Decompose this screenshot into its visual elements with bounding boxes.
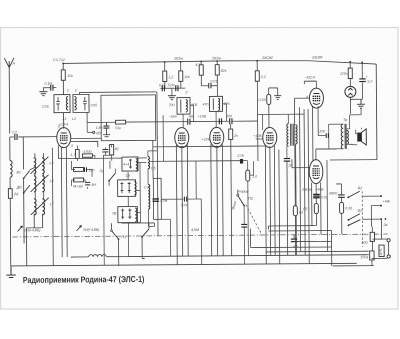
coil pair L5/L6 with tuning arrow <box>31 175 49 192</box>
ground right section <box>357 99 365 108</box>
resistor 1,0 volume <box>246 170 250 181</box>
svg-text:4,0: 4,0 <box>293 245 298 249</box>
dial lamp L <box>345 86 356 97</box>
capacitor 4,0v padder dark <box>153 199 159 201</box>
svg-text:2в: 2в <box>382 223 387 227</box>
wire: V4 grid line <box>294 97 309 99</box>
wire: P2 leads <box>238 190 245 265</box>
wire: tube V4 legs <box>265 145 275 264</box>
wire: resistor 2k leads <box>231 124 232 255</box>
svg-text:2,0к: 2,0к <box>236 154 244 158</box>
svg-text:150: 150 <box>88 168 94 172</box>
svg-text:1Н(+4,8Б): 1Н(+4,8Б) <box>83 228 99 232</box>
tube V2 IF amp <box>175 128 189 148</box>
svg-text:М+1В: М+1В <box>73 184 83 188</box>
svg-text:0,01: 0,01 <box>210 79 217 83</box>
svg-text:500: 500 <box>362 241 368 245</box>
svg-text:2Л½: 2Л½ <box>339 72 347 76</box>
wire: Tr secondary to speaker <box>347 115 362 145</box>
wire: stage2 box leads <box>183 105 194 128</box>
wire: V4 anode and bracket YuS4 <box>304 81 316 89</box>
svg-text:Радиоприемник Родина-47 (ЭЛС-1: Радиоприемник Родина-47 (ЭЛС-1) <box>23 274 145 285</box>
wire: AF coupling line <box>150 160 247 163</box>
wire: top anode supply bus <box>63 60 376 67</box>
wire: 6800 and 0,33 leads <box>336 184 342 235</box>
wire: box bottom to bus <box>161 115 184 256</box>
capacitor 0,01 below V5 dark <box>313 194 320 197</box>
output transformer Tr core <box>345 124 346 149</box>
coil L left shunt <box>10 160 12 177</box>
wire: P2 feed corner <box>250 228 331 248</box>
svg-text:82: 82 <box>115 147 119 151</box>
resistor 10k stage2 <box>179 71 183 81</box>
wire: cluster top line <box>77 155 147 161</box>
wire: Tr primary leads <box>316 124 344 149</box>
battery terminal circles <box>387 239 390 242</box>
coil pair L7/L8 with tuning arrow <box>31 198 49 215</box>
capacitor 200 feedback <box>326 133 328 138</box>
wire: V4 legs down to V5 <box>294 98 319 264</box>
switch B2 upper <box>348 191 360 197</box>
ground stage2 <box>168 96 176 100</box>
wire: bus to R to L2 top <box>62 63 64 95</box>
svg-text:С5: С5 <box>151 166 156 170</box>
svg-text:С05: С05 <box>42 105 49 109</box>
wire: stage3 leads <box>216 104 227 128</box>
switch P1 bottom left <box>112 231 118 239</box>
wire: bottom filament bus A <box>71 255 369 257</box>
wire: resistor k lead down <box>268 214 316 230</box>
svg-text:(к): (к) <box>303 207 307 211</box>
svg-text:С05: С05 <box>90 103 97 107</box>
switch B1 upper <box>24 171 30 179</box>
switch P2 power <box>238 196 244 206</box>
wire: V5 anode up to transformer <box>316 149 337 160</box>
capacitor 6800 <box>338 195 345 197</box>
capacitor 82 under box <box>102 150 108 152</box>
svg-text:4700: 4700 <box>83 150 91 154</box>
range coil box DV <box>118 180 137 197</box>
wire: shield box internal drops <box>152 92 158 236</box>
wire: stage3 droppers <box>201 61 217 96</box>
svg-text:+1Пв: +1Пв <box>202 137 211 141</box>
switch battery top <box>348 220 360 226</box>
capacitor 100 series <box>230 118 232 124</box>
svg-text:1Н(+4,8Б): 1Н(+4,8Б) <box>24 228 40 232</box>
wire: cap 200 lead <box>318 135 326 137</box>
resistor 51k in AVC line <box>116 120 126 124</box>
svg-text:0,33: 0,33 <box>258 98 265 102</box>
wire: V5 grid <box>292 159 309 168</box>
svg-text:·В2: ·В2 <box>357 209 363 213</box>
shield box oscillator padder <box>153 178 161 219</box>
svg-text:П1: П1 <box>122 235 127 239</box>
wire: grid elbow into V4 <box>256 114 289 139</box>
svg-text:2к: 2к <box>233 134 238 138</box>
svg-text:200: 200 <box>318 130 325 134</box>
capacitor at P2 <box>241 224 247 227</box>
dash-dot chassis linkage line <box>13 234 388 237</box>
dashed linkage P2 to B2 <box>246 205 262 235</box>
wire: second left vertical <box>22 137 25 243</box>
svg-text:+: + <box>366 75 368 79</box>
svg-text:2Ж2М: 2Ж2М <box>261 56 272 60</box>
wire: tube V1 plate to shield box <box>70 138 101 147</box>
svg-text:В1: В1 <box>17 170 21 174</box>
wire: lower terminal <box>362 218 379 220</box>
grid cap pin <box>93 131 95 133</box>
switch B1 lower <box>24 185 30 193</box>
tube V3 detector <box>210 127 224 147</box>
wire: battery connections <box>327 160 387 266</box>
svg-text:1,2: 1,2 <box>168 75 173 79</box>
wire: P1 lead down <box>111 223 118 266</box>
svg-text:·В2: ·В2 <box>357 186 363 190</box>
svg-text:С2: С2 <box>12 130 17 134</box>
antenna symbol <box>4 58 14 68</box>
svg-text:БНС: БНС <box>379 247 383 255</box>
svg-text:+10Б: +10Б <box>198 114 207 118</box>
ground stub mid <box>274 96 281 100</box>
svg-text:L2: L2 <box>72 117 76 121</box>
wire: T2 top and bottom leads <box>287 114 306 255</box>
capacitor 5,1M stage2 <box>176 85 178 91</box>
svg-text:·ЮС4: ·ЮС4 <box>305 76 314 80</box>
capacitor series stage3 grid <box>219 118 221 124</box>
resistor 2,2 dropper <box>255 71 259 81</box>
resistor (k) below V5 <box>314 204 318 214</box>
battery BNS <box>379 245 384 257</box>
coil pair L3/L4 with tuning arrow <box>30 157 48 174</box>
svg-text:5,0: 5,0 <box>367 80 372 84</box>
IF coil box stage3 <box>209 96 222 111</box>
wire: bottom chassis bus B <box>11 263 356 266</box>
wire: 0,33 leads with ground <box>269 88 278 128</box>
capacitor 0,0n mid <box>184 197 186 202</box>
wire: left block bottom leads <box>26 214 43 266</box>
svg-text:2,2: 2,2 <box>260 75 266 79</box>
svg-text:ТВ: ТВ <box>112 212 117 216</box>
wire: L2 top feed across <box>79 92 156 95</box>
svg-text:4Н: 4Н <box>91 183 96 187</box>
svg-text:1,8н: 1,8н <box>96 126 103 130</box>
resistor R 10k top left feed <box>61 70 65 80</box>
svg-text:6800: 6800 <box>329 191 337 195</box>
svg-text:2Ж2М: 2Ж2М <box>311 56 322 60</box>
switch Pg mid left <box>109 173 115 181</box>
wire: antenna downlead <box>8 67 11 133</box>
resistor 220 lamp feed <box>348 68 352 78</box>
wire: oscillator coil leads <box>148 151 158 227</box>
svg-text:470: 470 <box>202 102 208 106</box>
wire: R500 leads <box>371 227 373 251</box>
wire: L2 to cap C05 <box>86 112 88 122</box>
wire: tube V1 top lead <box>63 113 65 129</box>
probe arrow 2 <box>76 225 81 231</box>
svg-text:0,01: 0,01 <box>321 195 328 199</box>
svg-text:700: 700 <box>168 103 174 107</box>
tube V5 output <box>309 160 323 184</box>
IF transformer T2 vertical <box>287 124 297 146</box>
capacitor 0,1N with ground <box>51 85 53 91</box>
electrolytic 4,0 bottom <box>291 239 297 242</box>
svg-text:1,6: 1,6 <box>125 174 130 178</box>
svg-text:·: · <box>388 218 389 222</box>
switch Pv bottom mid <box>142 229 149 237</box>
svg-text:2Ж2м: 2Ж2м <box>301 188 312 192</box>
IF coil box stage2 <box>177 98 190 115</box>
svg-text:0,1: 0,1 <box>159 83 164 87</box>
chassis ground symbol bottom left <box>6 266 16 278</box>
svg-text:6В: 6В <box>96 131 101 135</box>
capacitor cluster row2 right <box>84 167 86 172</box>
wire: cap 4,0 leads <box>268 230 331 251</box>
svg-text:150а: 150а <box>360 255 368 259</box>
wire: stage2 droppers <box>160 62 185 96</box>
svg-text:4+4: 4+4 <box>123 163 129 167</box>
wire: Pv lead down <box>121 223 154 259</box>
probe arrow 1 <box>17 226 22 232</box>
dashed linkage B2 <box>361 191 363 246</box>
wire: lamp bottom <box>350 83 362 114</box>
oscillator coil L10 lower <box>148 184 150 209</box>
svg-text:51Н: 51Н <box>168 83 175 87</box>
shield box oscillator section <box>101 95 156 141</box>
svg-text:0,33: 0,33 <box>345 206 352 210</box>
wire: cap 0,01 leads <box>315 184 317 204</box>
tube V1 mixer <box>57 128 71 148</box>
wire: volume pot leads <box>248 161 255 256</box>
wire: tube V5 legs <box>279 149 321 264</box>
resistor cluster row2 left <box>73 168 83 172</box>
wire: tube V1 legs down <box>58 145 77 257</box>
svg-text:~500: ~500 <box>169 115 177 119</box>
svg-text:0,1Н: 0,1Н <box>44 82 52 86</box>
svg-text:4,0М: 4,0М <box>191 228 199 232</box>
wire: tube V3 legs <box>211 144 223 256</box>
capacitor NB series <box>188 119 190 125</box>
wire: middle terminal corner <box>371 206 380 227</box>
electrolytic 20,0 <box>284 158 290 161</box>
IF transformer box L1 <box>54 95 70 113</box>
ground stub top-left <box>39 92 47 96</box>
wire: lamp feed <box>349 62 351 86</box>
IF transformer box L2 <box>73 94 89 112</box>
resistor 4700 cluster row1 <box>82 154 92 157</box>
wire: right lower rail <box>266 250 369 253</box>
svg-text:С3·7х2: С3·7х2 <box>53 58 65 62</box>
resistor 1,7 cathode <box>76 149 80 158</box>
wire: cap 5,0 top lead <box>361 63 363 79</box>
resistor 500 <box>370 232 374 241</box>
wire: grid line left branch <box>87 122 92 132</box>
resistor 1,2 stage2 <box>163 71 167 81</box>
svg-text:ДВ: ДВ <box>16 185 23 189</box>
capacitor cluster row3 right <box>85 182 90 185</box>
svg-text:(к): (к) <box>299 210 303 214</box>
capacitor 2,0k series dark <box>240 159 243 164</box>
wire: left branch below antenna coupling <box>10 137 11 266</box>
svg-text:+НБ: +НБ <box>383 200 391 204</box>
resistor 2k right of V3 <box>229 129 233 139</box>
speaker <box>357 133 361 142</box>
wire: switch Pg leads <box>109 161 115 186</box>
svg-text:5: 5 <box>58 125 60 129</box>
resistor 0,33 output <box>340 202 344 213</box>
wire: upper terminal <box>362 195 379 197</box>
wire: terminal link <box>388 242 390 255</box>
capacitor C2 antenna series <box>15 134 17 140</box>
wire: dropper 258 down to AF line <box>256 61 259 161</box>
svg-text:2К2м: 2К2м <box>211 56 221 60</box>
svg-text:51к: 51к <box>115 126 121 130</box>
resistor R2 82 <box>110 144 114 154</box>
wire: tube V2 legs <box>176 145 188 265</box>
wire: cluster interconnects <box>71 145 92 189</box>
wire: coil pair interconnects <box>30 153 44 199</box>
resistor left shunt <box>8 189 12 199</box>
svg-text:100: 100 <box>226 114 232 118</box>
oscillator coil L9 upper <box>148 156 150 168</box>
transformer Tr secondary winding <box>347 130 349 144</box>
svg-text:2К2м: 2К2м <box>173 57 183 61</box>
svg-text:Пг: Пг <box>100 169 105 173</box>
capacitor 0,1 stage2 <box>162 85 164 91</box>
wire: R2 and cap leads <box>103 144 112 265</box>
resistor 150 <box>370 251 374 260</box>
svg-text:Тр: Тр <box>343 118 347 122</box>
svg-text:82к: 82к <box>221 69 227 73</box>
wire: coil box verticals <box>128 162 147 256</box>
wire: electrolytic lead down <box>286 161 289 255</box>
ground under cap 1,8n <box>103 122 110 136</box>
svg-text:П2: П2 <box>248 197 253 201</box>
switch B2 lower <box>348 214 360 220</box>
svg-text:3: 3 <box>71 144 73 148</box>
svg-text:(к): (к) <box>14 192 18 196</box>
capacitor 1,8n with ground <box>103 126 109 128</box>
range coil box bottom <box>118 206 138 222</box>
svg-text:10к: 10к <box>67 74 73 78</box>
capacitor 0,01 stage3 <box>209 83 211 89</box>
wire: antenna to tube V1 grid <box>10 136 57 138</box>
resistor cluster row3 left <box>74 178 84 182</box>
tube V4 detector-AVC <box>263 127 277 147</box>
svg-text:10к: 10к <box>184 75 190 79</box>
junction dots on supply bus <box>62 59 363 66</box>
wire: right side frame <box>330 159 377 161</box>
electrolytic 5,0 <box>359 79 365 82</box>
resistor 4,7 stage3 <box>199 65 203 75</box>
resistor 82k stage3 <box>215 65 219 75</box>
wire: cap to grounded stub <box>43 88 56 92</box>
filament choke in bus A <box>89 255 107 257</box>
wire: right edge drop from bus <box>375 64 378 160</box>
wire: AVC grid line across stages <box>87 121 257 122</box>
svg-text:Радио: Радио <box>238 190 248 194</box>
wire: long cathode line <box>153 145 265 148</box>
transformer Tr primary winding <box>341 124 343 149</box>
wire: cap 0,0n lead <box>186 161 201 265</box>
range coil box CB <box>122 157 138 171</box>
resistor grid leak V5 <box>293 206 297 216</box>
wire: speaker top lead <box>356 109 362 134</box>
wire: vertical from antenna line area down <box>51 148 54 266</box>
resistor 0,33 vertical mid <box>267 94 271 104</box>
tube V4 AF amp <box>309 88 323 108</box>
